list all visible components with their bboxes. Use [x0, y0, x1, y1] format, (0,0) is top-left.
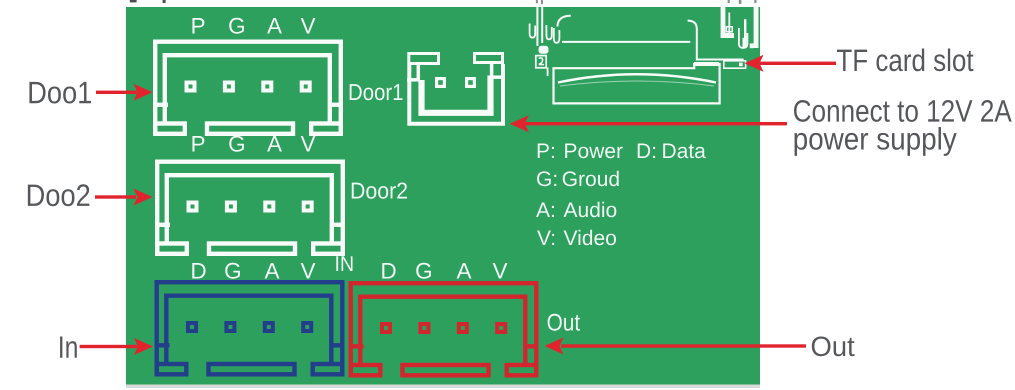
legend Data: [663, 144, 706, 159]
pin label G Door1: [229, 18, 244, 34]
label Door1: [350, 84, 403, 100]
label Out (white): [548, 314, 580, 331]
pin label P Door2: [192, 136, 204, 151]
connector Door1: [153, 42, 343, 134]
TF card slot drawing: [530, 0, 759, 103]
label Doo2: [28, 184, 90, 206]
pin label P Door1: [192, 18, 204, 33]
legend P:: [538, 144, 554, 158]
power connector: [407, 54, 503, 124]
arrow power supply: [510, 115, 787, 132]
pin label G In: [225, 263, 240, 279]
arrow In: [80, 338, 153, 355]
label IN: [336, 256, 352, 271]
pin label A Door2: [267, 136, 282, 151]
label TF card slot: [837, 49, 973, 72]
connector Door2: [155, 162, 345, 254]
pin label V In: [301, 263, 316, 278]
pin label A Door1: [267, 18, 282, 33]
label power supply: [795, 127, 957, 156]
arrow Out: [545, 338, 807, 355]
legend G:: [537, 171, 556, 186]
bottom gray edge strip: [126, 385, 760, 388]
arrow Doo2: [95, 189, 153, 206]
label Connect to 12V 2A: [794, 100, 1012, 122]
pin label G Door2: [229, 136, 244, 152]
pin label A In: [265, 263, 280, 278]
legend Audio: [564, 202, 617, 217]
label Door2: [352, 182, 407, 198]
label Doo1: [29, 82, 91, 104]
pin label G Out: [416, 263, 431, 279]
pin label V Out: [493, 263, 508, 278]
connector Out (red): [349, 283, 539, 375]
legend D:: [638, 144, 655, 158]
pin label D Out: [382, 263, 395, 278]
green PCB board background: [126, 7, 760, 385]
connector In (blue): [155, 282, 345, 374]
crop marks top left: [130, 0, 137, 2]
pin label V Door2: [301, 136, 316, 151]
label Out (right): [812, 336, 855, 356]
legend Groud: [563, 171, 619, 186]
arrow TF card slot: [745, 55, 837, 72]
arrow Doo1: [96, 84, 153, 101]
legend V:: [537, 231, 554, 245]
label In: [60, 336, 77, 357]
legend A:: [536, 203, 554, 217]
legend Power: [565, 144, 622, 159]
crop marks above TF slot: [536, 0, 757, 4]
pin label V Door1: [301, 18, 316, 33]
legend Video: [564, 230, 616, 245]
pin label A Out: [457, 263, 472, 278]
pin label D In: [192, 263, 205, 278]
